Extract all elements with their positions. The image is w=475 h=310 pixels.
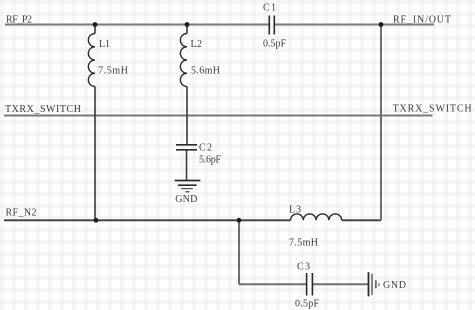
wire: L3 right end to vertical riser xyxy=(342,219,381,221)
svg-text:7.5mH: 7.5mH xyxy=(98,66,128,77)
svg-text:C3: C3 xyxy=(297,262,310,273)
wire: RF_N2 bottom rail to L3 xyxy=(4,219,291,221)
svg-text:TXRX_SWITCH: TXRX_SWITCH xyxy=(393,104,472,115)
wire: C3 row left segment xyxy=(239,283,306,285)
svg-text:GND: GND xyxy=(175,194,197,205)
svg-text:L1: L1 xyxy=(99,39,110,50)
svg-text:C1: C1 xyxy=(263,3,276,14)
wire: vertical riser from top rail junction down to L3 xyxy=(380,25,382,221)
capacitor C3 plates xyxy=(307,273,313,296)
svg-text:0.5pF: 0.5pF xyxy=(295,299,319,310)
junction dot at L2 / top rail xyxy=(185,22,190,27)
wire: L2 column below inductor to C2 xyxy=(186,87,188,145)
svg-text:L2: L2 xyxy=(191,39,203,50)
capacitor C1 plates xyxy=(269,16,274,35)
inductor L3 xyxy=(291,214,342,220)
wire: C3 row right segment to GND xyxy=(313,283,368,285)
svg-text:TXRX_SWITCH: TXRX_SWITCH xyxy=(5,104,81,115)
junction dot at C3 drop / RF_N2 rail xyxy=(237,218,242,223)
svg-text:5.6mH: 5.6mH xyxy=(191,66,220,77)
svg-text:L3: L3 xyxy=(289,205,301,216)
wire: TXRX_SWITCH horizontal rail xyxy=(4,115,433,117)
wire: C2 bottom plate to ground xyxy=(186,150,188,180)
svg-text:0.5pF: 0.5pF xyxy=(263,39,286,50)
ground symbol right of C3 (rotated) xyxy=(369,272,380,296)
wire: RF_P2 top rail left of C1 xyxy=(5,24,269,26)
wire: drop from RF_N2 rail down to C3 row xyxy=(238,220,240,284)
wire: L1 column top stub xyxy=(94,25,96,34)
svg-text:RF_P2: RF_P2 xyxy=(6,15,32,26)
svg-text:GND: GND xyxy=(383,280,406,291)
junction dot at L1 / RF_N2 rail xyxy=(94,218,99,223)
svg-text:RF_N2: RF_N2 xyxy=(6,207,37,218)
inductor L2 xyxy=(180,34,187,87)
wire: L2 column top stub xyxy=(186,25,188,34)
ground symbol below C2 xyxy=(175,181,201,192)
wire: L1 column below inductor to RF_N2 rail xyxy=(94,87,96,221)
junction dot at L1 / top rail xyxy=(93,22,98,27)
svg-text:5.6pF: 5.6pF xyxy=(199,155,221,166)
junction dot at riser / top rail xyxy=(379,22,384,27)
svg-text:7.5mH: 7.5mH xyxy=(289,238,318,249)
svg-text:C2: C2 xyxy=(199,143,212,154)
capacitor C2 plates xyxy=(176,145,197,150)
inductor L1 xyxy=(88,34,95,87)
wire: top rail right of C1 to RF_IN/OUT xyxy=(275,24,435,26)
svg-text:RF_IN/OUT: RF_IN/OUT xyxy=(393,14,451,25)
